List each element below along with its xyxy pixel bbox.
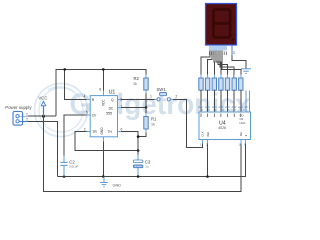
svg-text:2: 2 — [26, 118, 28, 122]
svg-text:CLK: CLK — [200, 131, 204, 136]
svg-text:11: 11 — [221, 108, 224, 112]
svg-text:GND: GND — [100, 127, 104, 135]
wire power pin1 to rail — [28, 115, 56, 117]
svg-text:VCC: VCC — [39, 96, 48, 101]
switch SW1 — [150, 87, 177, 101]
wire CV pin5 to C2 — [64, 115, 90, 156]
wire VCC feed down-left — [44, 116, 242, 191]
wire display pin f to R8 — [220, 51, 234, 79]
wire C2 top lead blue — [63, 156, 65, 163]
resistor R1 — [144, 113, 157, 133]
svg-text:VCC: VCC — [102, 99, 106, 106]
resistor R8 segment f — [232, 78, 236, 90]
wire U4 INH to gnd — [207, 140, 209, 177]
wire R6 to U4 pin d — [220, 90, 222, 112]
svg-text:8: 8 — [99, 88, 101, 92]
wire common to ground — [232, 56, 246, 69]
svg-text:1k: 1k — [133, 82, 137, 86]
node TH R1 — [137, 135, 140, 138]
wire display pin e to R7 — [218, 51, 228, 79]
resistor R4 segment b — [205, 78, 209, 90]
U4 pin number labels — [200, 108, 246, 147]
svg-text:C5: C5 — [240, 117, 244, 121]
power flag VCC — [39, 96, 48, 117]
svg-text:CO: CO — [240, 113, 244, 117]
wire U1 VCC pin8 — [102, 69, 104, 95]
resistor R6 segment d — [219, 78, 223, 90]
svg-text:2: 2 — [175, 95, 177, 99]
svg-text:7: 7 — [121, 105, 123, 109]
wire C3 top lead — [137, 155, 139, 161]
svg-text:U1: U1 — [109, 89, 116, 95]
resistor values labels — [198, 105, 251, 109]
capacitor C3 polarized — [133, 159, 151, 168]
svg-text:TH: TH — [108, 130, 113, 134]
svg-text:R1: R1 — [151, 116, 157, 121]
node C3 gnd — [137, 175, 140, 178]
wire R2-R1 rail — [145, 90, 147, 116]
svg-text:Power supply: Power supply — [5, 105, 32, 110]
capacitor C2 — [60, 160, 78, 177]
ground symbol bottom — [100, 177, 121, 188]
svg-text:2: 2 — [84, 128, 86, 132]
U4 bottom pin stubs — [203, 140, 246, 144]
wire R5 to U4 pin c — [213, 90, 215, 112]
wire TH pin6 — [118, 132, 139, 151]
node rail pin8 — [102, 68, 105, 71]
wire Q pin3 to SW1 — [118, 98, 157, 100]
svg-text:4: 4 — [84, 95, 86, 99]
wire DC pin7 to divider — [118, 106, 147, 108]
svg-text:3: 3 — [233, 51, 235, 55]
svg-text:DC: DC — [109, 107, 114, 111]
display pins — [210, 45, 226, 51]
svg-text:GND: GND — [113, 183, 122, 187]
watermark logo circle — [35, 84, 88, 137]
svg-text:DEI: DEI — [240, 132, 243, 136]
wire display pin g to R9 — [222, 51, 241, 79]
svg-text:INH: INH — [206, 132, 210, 137]
wire top VCC rail — [56, 69, 146, 116]
svg-text:10: 10 — [241, 108, 245, 112]
IC U1 555 timer — [84, 88, 123, 137]
svg-text:1: 1 — [150, 95, 152, 99]
svg-text:1: 1 — [26, 112, 28, 116]
svg-text:C2: C2 — [69, 160, 75, 165]
svg-text:555: 555 — [106, 111, 112, 115]
power supply connector J1 — [13, 112, 28, 126]
wire R3 to U4 pin a — [200, 90, 202, 112]
wire R4 to U4 pin b — [207, 90, 209, 112]
resistor R3 segment a — [199, 78, 203, 90]
svg-text:SW1: SW1 — [157, 87, 167, 92]
resistor R9 segment g — [239, 78, 243, 90]
wire power pin2 to gnd rail — [28, 121, 58, 176]
wire R1 bottom jog — [138, 129, 146, 137]
svg-text:UCC: UCC — [240, 121, 246, 125]
wire display pin b to R4 — [208, 51, 212, 79]
svg-text:5: 5 — [86, 111, 88, 115]
wire gnd rail — [58, 140, 246, 177]
node VCC junction — [42, 115, 45, 118]
ground symbol top right — [241, 69, 251, 74]
svg-text:1u: 1u — [145, 164, 149, 168]
node DC divider — [145, 106, 148, 109]
node TR TH C3 — [137, 149, 140, 152]
wire display pin c to R5 — [213, 51, 215, 79]
node C2 gnd — [63, 175, 66, 178]
display pin labels — [210, 52, 227, 56]
wire C3 bottom lead — [137, 168, 139, 177]
wire R9 to U4 pin g — [240, 90, 242, 112]
wire reset pin4 from rail — [65, 69, 91, 99]
node gnd U1 — [102, 175, 105, 178]
wire U1 GND pin1 — [102, 137, 104, 177]
IC U4 4026 counter — [199, 112, 251, 140]
U4 NC stub pins — [246, 91, 250, 113]
svg-text:1k: 1k — [151, 123, 155, 127]
resistor leads blue stubs — [201, 75, 241, 95]
wire display pin d to R6 — [216, 51, 221, 79]
wire TR pin2 loop — [75, 132, 138, 151]
node INH gnd — [206, 175, 209, 178]
svg-text:16: 16 — [239, 143, 243, 147]
display common pin — [231, 45, 233, 56]
svg-text:TR: TR — [92, 130, 97, 134]
wire display pin a to R3 — [201, 51, 210, 79]
svg-text:0.01 uF: 0.01 uF — [69, 165, 78, 169]
node rail pin4 — [63, 68, 66, 71]
svg-text:6: 6 — [121, 128, 123, 132]
wire R8 to U4 pin f — [233, 90, 235, 112]
resistor R7 segment e — [225, 78, 229, 90]
resistor R2 — [133, 75, 148, 94]
wire SW1 to U4 CLK — [171, 99, 203, 147]
U1 pin stubs — [87, 91, 122, 142]
svg-text:3: 3 — [120, 97, 122, 101]
svg-text:R2: R2 — [134, 76, 140, 81]
svg-text:4026: 4026 — [218, 126, 226, 130]
resistor R5 segment c — [212, 78, 216, 90]
seven segment display DS1 — [206, 4, 237, 46]
wire R7 to U4 pin e — [227, 90, 229, 112]
